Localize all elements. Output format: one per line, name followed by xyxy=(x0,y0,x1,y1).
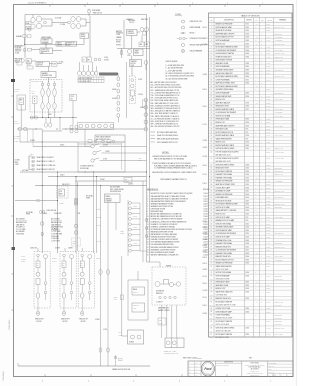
junction rails xyxy=(146,171,147,172)
svg-text:38: 38 xyxy=(210,145,212,147)
wire cluster links xyxy=(52,22,68,24)
svg-text:14300: 14300 xyxy=(245,327,249,329)
terminal row small b xyxy=(27,62,30,65)
parts table frame xyxy=(209,13,293,337)
svg-text:73: 73 xyxy=(210,266,212,268)
wire left box drop xyxy=(20,110,22,128)
svg-text:14301: 14301 xyxy=(245,177,249,179)
svg-text:16-595: 16-595 xyxy=(266,56,270,58)
symbol pair xyxy=(94,58,97,61)
svg-text:60: 60 xyxy=(210,223,212,225)
zone tick top xyxy=(154,5,156,7)
zone tick top xyxy=(119,5,121,7)
svg-text:D: D xyxy=(261,86,262,88)
svg-text:14-306: 14-306 xyxy=(266,275,270,277)
junction a xyxy=(24,44,25,45)
wire blower drops xyxy=(161,305,163,338)
svg-text:36 RED: 36 RED xyxy=(116,42,121,44)
svg-text:10505: 10505 xyxy=(245,194,249,196)
svg-text:18-735: 18-735 xyxy=(266,66,270,68)
wire alt link xyxy=(137,31,140,33)
svg-text:1: 1 xyxy=(262,3,263,5)
svg-text:5: 5 xyxy=(122,3,123,5)
wire ladder feed xyxy=(139,203,141,251)
svg-text:14301: 14301 xyxy=(245,40,249,42)
svg-text:14 RED: 14 RED xyxy=(203,245,208,247)
svg-text:25: 25 xyxy=(210,102,212,104)
svg-text:SEE NOTE 2: SEE NOTE 2 xyxy=(275,243,283,245)
legend SPLICE xyxy=(181,32,186,34)
svg-text:14 BLU: 14 BLU xyxy=(133,227,137,229)
gauge M4 amp xyxy=(36,23,41,29)
fuse block FB1 xyxy=(52,62,58,66)
junction rail crossings xyxy=(42,171,43,172)
svg-text:10300: 10300 xyxy=(245,37,249,39)
svg-text:14-649: 14-649 xyxy=(266,243,270,245)
svg-text:10849: 10849 xyxy=(245,282,249,284)
svg-text:10-845: 10-845 xyxy=(15,53,19,55)
svg-text:14290: 14290 xyxy=(245,135,249,137)
dashed stub a xyxy=(27,129,29,142)
svg-text:12-392: 12-392 xyxy=(266,250,270,252)
wire row33 bus xyxy=(25,44,63,46)
svg-text:SWITCH BLOWER 3 SPEED: SWITCH BLOWER 3 SPEED xyxy=(216,164,235,166)
svg-text:12 YEL: 12 YEL xyxy=(203,221,208,223)
svg-text:D: D xyxy=(261,275,262,277)
svg-text:86: 86 xyxy=(210,327,212,329)
panel top row comps xyxy=(88,140,92,143)
svg-text:10 YEL: 10 YEL xyxy=(138,79,143,81)
svg-text:CKT 37: CKT 37 xyxy=(14,138,19,140)
label gauge A xyxy=(26,22,32,25)
svg-text:14-927: 14-927 xyxy=(266,181,270,183)
wire x100 drop xyxy=(100,186,102,254)
svg-text:72: 72 xyxy=(210,263,212,265)
svg-text:14300: 14300 xyxy=(245,174,249,176)
svg-text:NO: NO xyxy=(63,265,65,267)
svg-text:B2-1: B2-1 xyxy=(210,294,213,296)
svg-text:BULB NO 1157: BULB NO 1157 xyxy=(216,43,226,45)
svg-text:D: D xyxy=(261,60,262,62)
wire switch col xyxy=(84,130,86,147)
svg-text:10 BLK: 10 BLK xyxy=(36,199,40,201)
svg-text:C: C xyxy=(261,96,262,98)
svg-text:SEE NOTE 2: SEE NOTE 2 xyxy=(275,168,283,170)
svg-text:14: 14 xyxy=(210,66,212,68)
svg-text:MOTOR: MOTOR xyxy=(131,63,136,65)
svg-text:RES: RES xyxy=(159,320,162,322)
svg-text:C 27 CKT FEED: C 27 CKT FEED xyxy=(16,229,26,231)
svg-text:84: 84 xyxy=(210,315,212,317)
wire center vertical feed xyxy=(89,16,91,57)
svg-text:18 BLK: 18 BLK xyxy=(96,258,100,260)
svg-text:14301: 14301 xyxy=(245,168,249,170)
svg-text:12-242: 12-242 xyxy=(266,30,270,32)
lamp pair DS11 xyxy=(86,71,90,75)
svg-text:D: D xyxy=(261,236,262,238)
heater blower control A3 xyxy=(152,267,186,305)
svg-text:13853: 13853 xyxy=(245,204,249,206)
svg-text:10505: 10505 xyxy=(245,236,249,238)
svg-text:16-251: 16-251 xyxy=(266,53,270,55)
component right dash xyxy=(72,238,81,246)
svg-text:BODY: BODY xyxy=(121,231,125,233)
svg-text:12-206: 12-206 xyxy=(266,288,270,290)
svg-text:18 YEL: 18 YEL xyxy=(203,297,208,299)
svg-text:31: 31 xyxy=(210,122,212,124)
connector circles x146 lower xyxy=(145,219,148,222)
svg-text:18-817: 18-817 xyxy=(266,246,270,248)
svg-text:Ford: Ford xyxy=(204,367,211,371)
svg-text:14290: 14290 xyxy=(245,292,249,294)
svg-text:REF DWG 14401: REF DWG 14401 xyxy=(275,27,285,29)
svg-text:SERVICE ONLY: SERVICE ONLY xyxy=(275,70,284,72)
svg-text:12-193: 12-193 xyxy=(266,184,270,186)
legend GROUND WIRE AND TIE PT xyxy=(182,44,185,47)
wire module drops xyxy=(107,203,109,254)
svg-text:81: 81 xyxy=(210,301,212,303)
zone tick left xyxy=(12,185,14,187)
svg-text:16 YEL: 16 YEL xyxy=(203,174,208,176)
svg-text:14 RED: 14 RED xyxy=(203,74,208,76)
svg-text:12-963: 12-963 xyxy=(266,311,270,313)
svg-text:49: 49 xyxy=(210,187,212,189)
svg-text:10505: 10505 xyxy=(245,207,249,209)
svg-text:D: D xyxy=(261,187,262,189)
wire rail y185 xyxy=(35,185,147,187)
fuel sender box xyxy=(95,135,125,142)
svg-text:DESCRIPTION: DESCRIPTION xyxy=(224,20,234,22)
wire tb3 drop xyxy=(72,101,74,126)
wire harness lead 2 xyxy=(32,160,35,162)
svg-text:26: 26 xyxy=(210,106,212,108)
svg-text:CIRCUIT): CIRCUIT) xyxy=(15,51,21,53)
svg-text:45: 45 xyxy=(210,174,212,176)
svg-text:USED W/ HTR: USED W/ HTR xyxy=(275,174,283,176)
switch wafer S3b xyxy=(47,83,50,86)
svg-text:MOTOR WINDOW LIFT RH: MOTOR WINDOW LIFT RH xyxy=(216,37,234,39)
svg-text:NOTE: NOTE xyxy=(266,152,270,154)
wire bus y117 xyxy=(30,117,77,119)
wire rail y200 xyxy=(15,200,58,202)
svg-text:14489: 14489 xyxy=(114,299,118,301)
gauge M3 oil xyxy=(31,24,35,29)
svg-text:42: 42 xyxy=(210,164,212,166)
gauge M6 xyxy=(76,17,80,22)
svg-text:13350: 13350 xyxy=(245,308,249,310)
svg-text:16-273: 16-273 xyxy=(266,256,270,258)
wire drop x57 xyxy=(57,172,59,253)
svg-text:13: 13 xyxy=(210,63,212,65)
svg-text:MOTOR: MOTOR xyxy=(63,321,68,323)
switch S1 box xyxy=(26,59,32,63)
wire bus y129 right xyxy=(62,128,147,130)
svg-text:3: 3 xyxy=(192,3,193,5)
svg-text:36: 36 xyxy=(210,138,212,140)
wire bus y129 left xyxy=(17,128,42,130)
svg-text:BKR: BKR xyxy=(60,194,63,196)
svg-text:8 RED: 8 RED xyxy=(43,213,47,215)
svg-text:D: D xyxy=(261,263,262,265)
svg-text:18-560: 18-560 xyxy=(266,292,270,294)
junction y142 xyxy=(42,141,43,142)
wire y48 rail xyxy=(117,48,150,50)
wire harness lead 1 xyxy=(32,157,35,159)
lamp pair DS12 xyxy=(95,71,98,75)
svg-text:SERVICE ONLY: SERVICE ONLY xyxy=(275,171,284,173)
wire actuator tail 1 xyxy=(37,308,39,311)
ignition switch S2 box xyxy=(36,62,50,67)
ammeter M9 xyxy=(139,42,144,47)
svg-text:62: 62 xyxy=(210,230,212,232)
svg-text:TIMES: TIMES xyxy=(86,197,90,199)
svg-text:HRN TURN: HRN TURN xyxy=(141,19,148,21)
wire reg out xyxy=(53,50,63,52)
svg-text:12-340: 12-340 xyxy=(204,193,208,195)
svg-text:D: D xyxy=(261,43,262,45)
svg-text:12-860: 12-860 xyxy=(266,171,270,173)
svg-text:14-746: 14-746 xyxy=(266,96,270,98)
switch assembly S3 dashed box xyxy=(30,80,62,113)
wire actuator tail 3 xyxy=(81,308,83,311)
svg-text:87: 87 xyxy=(210,334,212,336)
svg-text:SEE NOTE 2: SEE NOTE 2 xyxy=(275,321,283,323)
svg-text:9275: 9275 xyxy=(245,132,248,134)
svg-text:14 BLK: 14 BLK xyxy=(203,305,207,307)
svg-text:CL 460 FEED: CL 460 FEED xyxy=(51,238,59,240)
svg-text:10 ORG: 10 ORG xyxy=(103,144,108,146)
zone tick right xyxy=(293,129,295,131)
svg-text:14 BLK-YEL: 14 BLK-YEL xyxy=(30,248,37,250)
svg-text:10 BLK: 10 BLK xyxy=(203,263,207,265)
junction b xyxy=(46,44,47,45)
svg-text:CLUSTER: CLUSTER xyxy=(15,47,22,49)
svg-text:39: 39 xyxy=(210,148,212,150)
connector ring P4 xyxy=(106,270,109,275)
svg-text:14290: 14290 xyxy=(245,122,249,124)
svg-text:83: 83 xyxy=(210,311,212,313)
svg-text:10 RED: 10 RED xyxy=(203,147,208,149)
wire reg in xyxy=(32,49,41,51)
svg-text:DWG NO: DWG NO xyxy=(246,20,251,22)
svg-text:14-813: 14-813 xyxy=(266,334,270,336)
svg-text:10 ORG: 10 ORG xyxy=(104,60,109,62)
wire harness lead 4 xyxy=(32,168,35,170)
svg-text:16-909: 16-909 xyxy=(266,233,270,235)
svg-text:11450: 11450 xyxy=(245,230,249,232)
svg-text:80: 80 xyxy=(210,298,212,300)
svg-text:29: 29 xyxy=(210,115,212,117)
svg-text:13853: 13853 xyxy=(245,119,249,121)
zone tick left xyxy=(12,215,14,217)
svg-text:BULB NO 1157: BULB NO 1157 xyxy=(216,99,226,101)
svg-text:12 ORG: 12 ORG xyxy=(203,44,208,46)
gauge M2 temp xyxy=(36,16,41,22)
fuse oval x42 xyxy=(41,232,43,236)
multi-pin connector hatched bar xyxy=(99,73,117,76)
svg-text:18 YEL: 18 YEL xyxy=(133,216,137,218)
svg-text:14290: 14290 xyxy=(245,171,249,173)
svg-text:20: 20 xyxy=(210,86,212,88)
svg-text:18-592: 18-592 xyxy=(266,200,270,202)
connector J3 bracket xyxy=(28,156,30,170)
svg-text:12 RED: 12 RED xyxy=(203,140,208,142)
svg-text:12-459: 12-459 xyxy=(204,237,208,239)
svg-text:16-637: 16-637 xyxy=(266,50,270,52)
svg-text:D: D xyxy=(189,372,190,374)
connector column right P9 xyxy=(144,98,148,102)
title divider 3 xyxy=(267,361,269,377)
svg-text:HOT FEED: HOT FEED xyxy=(22,170,29,172)
svg-text:11572: 11572 xyxy=(245,24,249,26)
svg-text:SENDER OIL PRESSURE: SENDER OIL PRESSURE xyxy=(216,181,233,183)
legend CIRCUIT BREAKER xyxy=(182,50,185,53)
svg-text:69: 69 xyxy=(210,253,212,255)
svg-text:13350: 13350 xyxy=(245,233,249,235)
svg-text:14301: 14301 xyxy=(245,30,249,32)
legend WIRE SPLICE CLIP xyxy=(182,20,185,23)
svg-text:14-433: 14-433 xyxy=(266,327,270,329)
svg-text:D: D xyxy=(261,122,262,124)
svg-text:16 RED: 16 RED xyxy=(59,203,63,205)
svg-text:18: 18 xyxy=(210,79,212,81)
svg-text:14 WHT: 14 WHT xyxy=(95,319,100,321)
svg-text:11450: 11450 xyxy=(245,148,249,150)
svg-text:2: 2 xyxy=(227,3,228,5)
wire x143 vertical xyxy=(142,181,144,262)
wire top rail xyxy=(25,14,147,16)
svg-text:7: 7 xyxy=(52,3,53,5)
horn relay K5 box xyxy=(128,280,148,320)
terminal row small c xyxy=(27,66,33,69)
svg-text:76: 76 xyxy=(210,282,212,284)
svg-text:71: 71 xyxy=(210,259,212,261)
svg-text:12-324: 12-324 xyxy=(266,164,270,166)
svg-text:D: D xyxy=(261,76,262,78)
svg-text:10849: 10849 xyxy=(245,53,249,55)
resistor R2 box xyxy=(67,42,77,47)
wire rail y172 xyxy=(20,171,147,173)
fuse F4 oval xyxy=(40,210,42,214)
gauge M1 fuel xyxy=(31,17,35,22)
svg-text:SEE NOTE 2: SEE NOTE 2 xyxy=(275,33,283,35)
svg-text:WINDOW LIFT: WINDOW LIFT xyxy=(61,319,70,321)
resistor R1 box xyxy=(56,42,66,47)
svg-text:23: 23 xyxy=(210,96,212,98)
svg-text:16 BLK: 16 BLK xyxy=(60,144,64,146)
wire flasher drop xyxy=(45,43,47,48)
svg-text:54: 54 xyxy=(210,204,212,206)
svg-text:14-144: 14-144 xyxy=(266,220,270,222)
wire starter down xyxy=(131,67,133,77)
svg-text:RESISTOR: RESISTOR xyxy=(68,42,75,44)
svg-text:16-629: 16-629 xyxy=(266,197,270,199)
svg-text:70: 70 xyxy=(210,256,212,258)
svg-text:12-396: 12-396 xyxy=(204,214,208,216)
connector ring bottom 2 xyxy=(63,311,66,315)
svg-text:RESISTOR: RESISTOR xyxy=(156,293,163,295)
svg-text:16-858: 16-858 xyxy=(266,119,270,121)
svg-text:13480: 13480 xyxy=(245,63,249,65)
svg-text:C: C xyxy=(261,220,262,222)
switch panel box xyxy=(78,142,125,172)
svg-text:12-347: 12-347 xyxy=(204,196,208,198)
svg-text:18 ORG: 18 ORG xyxy=(203,233,208,235)
svg-text:CIRCUIT: CIRCUIT xyxy=(267,20,272,22)
terminal TB2 xyxy=(28,48,32,51)
svg-text:10V: 10V xyxy=(41,52,43,54)
connector ring bottom 3 xyxy=(81,311,84,315)
svg-text:12-487: 12-487 xyxy=(204,247,208,249)
svg-text:14401: 14401 xyxy=(48,114,52,116)
gauge M5 xyxy=(71,17,75,22)
wire gauge links xyxy=(42,18,52,20)
svg-text:USED W/ HTR: USED W/ HTR xyxy=(275,148,283,150)
svg-text:14 RED: 14 RED xyxy=(203,269,208,271)
terminal row small a xyxy=(17,62,22,65)
svg-text:INSTRUMENT CLUSTER FEED SYSTEM: INSTRUMENT CLUSTER FEED SYSTEM xyxy=(151,249,176,251)
fuse F6 xyxy=(119,359,123,361)
zone tick left xyxy=(12,95,14,97)
svg-text:10849: 10849 xyxy=(245,92,249,94)
svg-text:13350: 13350 xyxy=(245,259,249,261)
connector ring P5 xyxy=(99,348,102,352)
svg-text:INSTRUMENT: INSTRUMENT xyxy=(15,45,24,47)
svg-text:18 GRN: 18 GRN xyxy=(52,258,57,260)
title block right fields xyxy=(268,363,293,365)
connector P1 symbol xyxy=(88,10,91,13)
svg-text:CHOKE: CHOKE xyxy=(57,44,62,46)
svg-text:D: D xyxy=(261,109,262,111)
svg-text:NO: NO xyxy=(37,265,39,267)
wire flasher v xyxy=(48,67,50,72)
zone tick bottom xyxy=(272,374,274,376)
svg-text:REF DWG 14401: REF DWG 14401 xyxy=(275,191,285,193)
parts table rows xyxy=(209,24,293,26)
wire type legend xyxy=(151,134,156,136)
svg-text:18 YEL: 18 YEL xyxy=(21,256,25,258)
svg-text:SERVICE ONLY: SERVICE ONLY xyxy=(275,92,284,94)
svg-text:11450: 11450 xyxy=(245,246,249,248)
wire gauge top xyxy=(32,15,34,18)
svg-text:9275: 9275 xyxy=(245,129,248,131)
connector ring P3 xyxy=(99,270,102,275)
svg-text:14-215: 14-215 xyxy=(266,70,270,72)
svg-text:C: C xyxy=(261,256,262,258)
ground bus wire xyxy=(18,365,150,367)
svg-text:24: 24 xyxy=(210,99,212,101)
wire y131 stub xyxy=(43,130,62,132)
wire drop x76 xyxy=(75,177,77,253)
resistor R4 box xyxy=(158,318,166,325)
svg-text:14290: 14290 xyxy=(245,33,249,35)
svg-text:13480: 13480 xyxy=(245,76,249,78)
boxed label rail xyxy=(124,177,132,182)
svg-text:12-811: 12-811 xyxy=(266,142,270,144)
svg-text:56: 56 xyxy=(210,210,212,212)
svg-text:12-525: 12-525 xyxy=(266,99,270,101)
wire charge drops xyxy=(141,35,143,42)
svg-text:52: 52 xyxy=(210,197,212,199)
wire blower feed xyxy=(159,262,161,267)
wire harness lead 3 xyxy=(32,164,35,166)
wire rail y181 xyxy=(78,180,147,182)
svg-text:USED W/ HTR: USED W/ HTR xyxy=(275,56,283,58)
svg-text:12 WHT: 12 WHT xyxy=(203,156,208,158)
svg-text:18-894: 18-894 xyxy=(266,24,270,26)
panel top wire xyxy=(78,143,122,145)
svg-text:USED W/ HTR: USED W/ HTR xyxy=(275,301,283,303)
